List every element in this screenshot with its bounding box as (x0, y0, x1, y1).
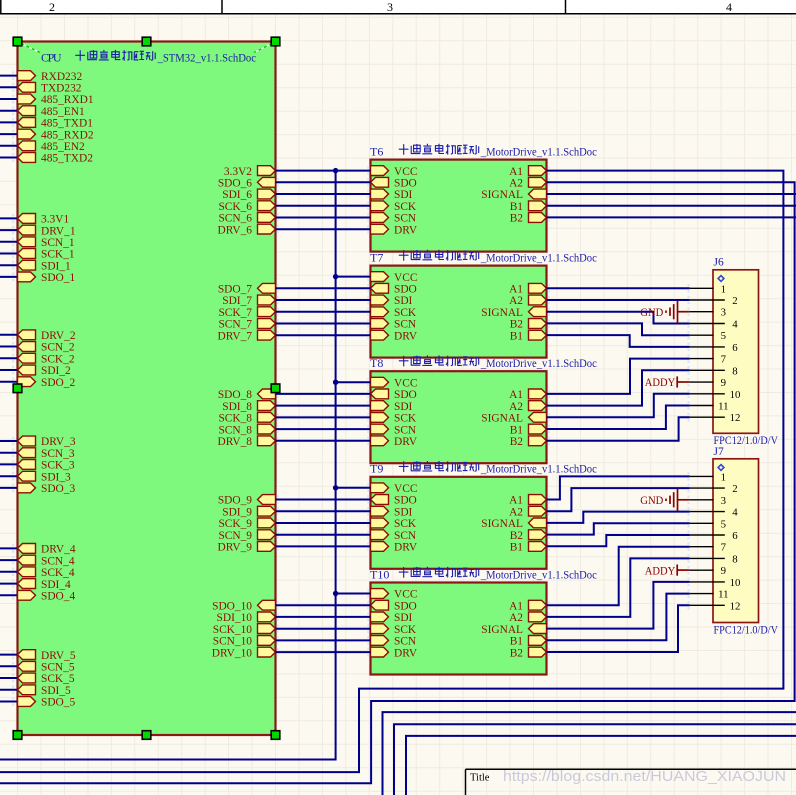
svg-text:SCK: SCK (394, 201, 417, 213)
wire (547, 406, 690, 430)
pin 1 (690, 471, 726, 483)
node marker (367, 648, 369, 656)
sheet entry DRV_1 (18, 225, 76, 237)
svg-text:SDI_9: SDI_9 (222, 506, 252, 518)
selection handle (13, 384, 22, 393)
node marker (12, 662, 14, 670)
node marker (367, 601, 369, 609)
svg-text:B2: B2 (510, 213, 524, 225)
wire (0, 276, 18, 278)
node marker (367, 331, 369, 339)
wire (0, 654, 18, 656)
svg-text:T10: T10 (370, 567, 389, 581)
svg-text:SCK: SCK (394, 518, 417, 530)
node marker (12, 686, 14, 694)
sheet entry VCC (371, 377, 418, 389)
sheet entry SIGNAL (481, 518, 546, 530)
svg-text:SDO_4: SDO_4 (41, 591, 75, 603)
sheet entry VCC (371, 166, 418, 178)
node marker (687, 401, 689, 409)
junction (333, 591, 338, 596)
svg-text:B1: B1 (510, 542, 524, 554)
node marker (367, 542, 369, 550)
sheet entry SCK (371, 624, 417, 636)
selection handle (271, 731, 280, 740)
sheet entry SCN_7 (218, 319, 275, 331)
svg-text:B1: B1 (510, 424, 524, 436)
node marker (12, 697, 14, 705)
svg-text:_MotorDrive_v1.1.SchDoc: _MotorDrive_v1.1.SchDoc (480, 252, 597, 264)
svg-text:SDO_7: SDO_7 (218, 284, 252, 296)
node marker (277, 542, 279, 550)
node marker (367, 202, 369, 210)
node marker (367, 178, 369, 186)
sheet entry SDI_5 (18, 685, 72, 697)
node marker (12, 118, 14, 126)
power port GND at J7.3 (640, 489, 690, 512)
node marker (548, 542, 550, 550)
svg-text:7: 7 (721, 354, 727, 366)
node marker (687, 472, 689, 480)
wire (0, 559, 18, 561)
svg-text:SCN_1: SCN_1 (41, 237, 75, 249)
sheet entry SCK_9 (218, 518, 275, 530)
wire (0, 475, 18, 477)
sheet entry SCK_8 (218, 412, 275, 424)
node marker (12, 650, 14, 658)
wire (336, 593, 371, 595)
wire (276, 205, 371, 207)
svg-text:_MotorDrive_v1.1.SchDoc: _MotorDrive_v1.1.SchDoc (480, 146, 597, 158)
wire (0, 381, 18, 383)
sheet entry RXD232 (18, 71, 83, 83)
sheet entry DRV_8 (217, 436, 275, 448)
sheet entry SDI (371, 506, 413, 518)
sheet file name CJK_STM32_v1.1.SchDoc (75, 50, 256, 65)
sheet entry B1 (510, 330, 547, 342)
svg-text:SCN_8: SCN_8 (218, 424, 252, 436)
wire (276, 334, 371, 336)
node marker (687, 484, 689, 492)
sheet file name CJK_MotorDrive_v1.1.SchDoc (399, 461, 597, 476)
node marker (367, 284, 369, 292)
sheet entry DRV (371, 436, 418, 448)
node marker (367, 425, 369, 433)
node marker (12, 249, 14, 257)
sheet entry A1 (509, 283, 546, 295)
pin 9 (690, 377, 726, 389)
svg-text:A2: A2 (509, 401, 523, 413)
sheet entry SDO_8 (218, 389, 276, 401)
wire (0, 346, 18, 348)
wire (276, 440, 371, 442)
svg-text:DRV: DRV (394, 647, 418, 659)
wire (547, 582, 690, 629)
svg-text:SDI_6: SDI_6 (222, 189, 252, 201)
wire (276, 628, 371, 630)
wire (276, 639, 371, 641)
node marker (367, 390, 369, 398)
node marker (277, 507, 279, 515)
svg-text:5: 5 (721, 330, 726, 342)
node marker (367, 308, 369, 316)
sheet symbol T7 (MotorDrive sheet) (371, 266, 547, 358)
wire (0, 334, 18, 336)
power port ADDY at J6.9 (645, 375, 690, 389)
wire (0, 86, 18, 88)
node marker (12, 568, 14, 576)
node marker (548, 319, 550, 327)
sheet entry A1 (509, 600, 546, 612)
wire (547, 605, 690, 652)
node marker (367, 625, 369, 633)
svg-text:9: 9 (721, 377, 726, 389)
sheet file name CJK_MotorDrive_v1.1.SchDoc (399, 250, 597, 265)
svg-text:VCC: VCC (394, 483, 417, 495)
wire (336, 276, 371, 278)
sheet entry SCK_4 (18, 567, 75, 579)
svg-text:485_EN1: 485_EN1 (41, 106, 85, 118)
wire (547, 370, 690, 405)
wire (276, 499, 371, 501)
svg-text:2: 2 (732, 483, 737, 495)
svg-text:SCN: SCN (394, 319, 416, 331)
svg-text:3: 3 (721, 307, 726, 319)
node marker (687, 390, 689, 398)
svg-text:B1: B1 (510, 636, 524, 648)
sheet entry SDO_2 (18, 377, 76, 389)
wire (0, 253, 18, 255)
wire (0, 357, 18, 359)
junction (333, 168, 338, 173)
wire T7.A1 to J6.1 (547, 287, 690, 289)
wire (383, 712, 796, 795)
pin 3 (690, 495, 726, 507)
node marker (367, 589, 369, 597)
sheet entry A1 (509, 495, 546, 507)
wire (336, 487, 371, 489)
sheet entry SDI_6 (222, 189, 275, 201)
sheet entry SCN_1 (18, 237, 75, 249)
wire (276, 311, 371, 313)
svg-text:ADDY: ADDY (645, 375, 676, 389)
svg-text:8: 8 (732, 553, 737, 565)
node marker (367, 225, 369, 233)
sheet entry 485_TXD2 (18, 153, 94, 165)
pin 9 (690, 565, 726, 577)
node marker (687, 601, 689, 609)
wire (276, 217, 371, 219)
wire (547, 335, 690, 347)
node marker (12, 460, 14, 468)
svg-text:SDO: SDO (394, 600, 417, 612)
svg-text:DRV: DRV (394, 330, 418, 342)
svg-text:SDI: SDI (394, 506, 413, 518)
svg-text:12: 12 (730, 600, 741, 612)
wire (276, 510, 371, 512)
svg-text:7: 7 (721, 542, 727, 554)
wire (0, 157, 18, 159)
svg-text:SCK: SCK (394, 413, 417, 425)
svg-text:A1: A1 (509, 389, 523, 401)
svg-text:DRV_9: DRV_9 (217, 542, 252, 554)
sheet entry 3.3V1 (18, 214, 70, 226)
node marker (12, 273, 14, 281)
wire (276, 170, 371, 172)
wire (394, 724, 796, 795)
svg-text:J6: J6 (714, 257, 724, 269)
sheet entry DRV_6 (217, 224, 275, 236)
wire (547, 476, 690, 499)
sheet file name CJK_MotorDrive_v1.1.SchDoc (399, 567, 597, 582)
svg-text:DRV: DRV (394, 542, 418, 554)
sheet entry DRV_4 (18, 544, 76, 556)
svg-text:485_RXD2: 485_RXD2 (41, 129, 94, 141)
pin 1 (690, 283, 726, 295)
svg-text:SIGNAL: SIGNAL (481, 189, 523, 201)
power port ADDY at J7.9 (645, 563, 690, 577)
wire (276, 228, 371, 230)
connector J7 (713, 459, 759, 623)
wire (276, 416, 371, 418)
node marker (367, 636, 369, 644)
node marker (687, 496, 689, 504)
svg-text:8: 8 (732, 365, 737, 377)
svg-text:A2: A2 (509, 612, 523, 624)
sheet entry SCK_5 (18, 673, 75, 685)
sheet entry SDI_9 (222, 506, 275, 518)
svg-text:SDO_8: SDO_8 (218, 389, 252, 401)
node marker (367, 378, 369, 386)
svg-text:SCN_7: SCN_7 (218, 319, 252, 331)
node marker (12, 95, 14, 103)
svg-text:SDI: SDI (394, 612, 413, 624)
svg-text:1: 1 (721, 283, 726, 295)
wire (0, 440, 18, 442)
svg-text:VCC: VCC (394, 166, 417, 178)
pin 10 (690, 577, 741, 589)
wire (547, 488, 690, 511)
wire (0, 677, 18, 679)
svg-text:FPC12/1.0/D/V: FPC12/1.0/D/V (714, 625, 779, 637)
wire (0, 452, 18, 454)
svg-text:3: 3 (721, 495, 726, 507)
sheet entry 485_EN1 (18, 106, 85, 118)
wire (0, 182, 795, 783)
svg-text:_MotorDrive_v1.1.SchDoc: _MotorDrive_v1.1.SchDoc (480, 358, 597, 370)
node marker (367, 484, 369, 492)
sheet entry SCN (371, 213, 417, 225)
wire T6.B2 (547, 216, 796, 218)
node marker (12, 83, 14, 91)
node marker (548, 601, 550, 609)
wire (276, 181, 371, 183)
svg-text:J7: J7 (714, 446, 724, 458)
node marker (687, 296, 689, 304)
sheet entry SCK_6 (218, 201, 275, 213)
svg-text:SDO_2: SDO_2 (41, 377, 75, 389)
svg-text:VCC: VCC (394, 272, 417, 284)
sheet entry A2 (509, 612, 546, 624)
svg-text:T6: T6 (370, 144, 383, 158)
svg-text:GND: GND (640, 493, 663, 507)
selection handle (13, 37, 22, 46)
pin 6 (690, 342, 738, 354)
sheet entry SDI_2 (18, 365, 72, 377)
svg-text:SDO: SDO (394, 389, 417, 401)
sheet entry 485_RXD2 (18, 129, 94, 141)
pin 2 (690, 483, 738, 495)
sheet entry SIGNAL (481, 307, 546, 319)
pin 2 (690, 295, 738, 307)
wire (547, 323, 690, 335)
pin 4 (690, 507, 738, 519)
sheet file name CJK_MotorDrive_v1.1.SchDoc (399, 144, 597, 159)
svg-text:B2: B2 (510, 530, 524, 542)
wire (276, 534, 371, 536)
sheet entry TXD232 (18, 82, 82, 94)
svg-text:SCN_3: SCN_3 (41, 448, 75, 460)
node marker (367, 166, 369, 174)
svg-text:SDO_9: SDO_9 (218, 495, 252, 507)
wire (276, 405, 371, 407)
sheet entry DRV (371, 647, 418, 659)
svg-text:SCK: SCK (394, 307, 417, 319)
node marker (277, 437, 279, 445)
svg-text:SDI_5: SDI_5 (41, 685, 71, 697)
wire (0, 133, 18, 135)
svg-text:SCN_9: SCN_9 (218, 530, 252, 542)
wire (276, 287, 371, 289)
svg-text:10: 10 (730, 389, 741, 401)
wire (276, 428, 371, 430)
pin 8 (690, 553, 738, 565)
svg-text:SDO_1: SDO_1 (41, 272, 75, 284)
sheet entry SDI (371, 189, 413, 201)
wire (547, 535, 690, 546)
sheet entry SDO_6 (218, 177, 276, 189)
wire (547, 594, 690, 641)
node marker (12, 366, 14, 374)
sheet file name CJK_MotorDrive_v1.1.SchDoc (399, 355, 597, 370)
node marker (12, 153, 14, 161)
sheet entry B2 (510, 530, 547, 542)
node marker (548, 495, 550, 503)
node marker (12, 591, 14, 599)
wire (276, 604, 371, 606)
svg-text:T8: T8 (370, 356, 383, 370)
wire (276, 651, 371, 653)
svg-text:_MotorDrive_v1.1.SchDoc: _MotorDrive_v1.1.SchDoc (480, 464, 597, 476)
node marker (687, 319, 689, 327)
sheet entry SDO (371, 283, 417, 295)
node marker (367, 495, 369, 503)
svg-text:GND: GND (640, 305, 663, 319)
title block (466, 769, 796, 795)
node marker (12, 449, 14, 457)
svg-text:11: 11 (718, 401, 728, 413)
node marker (687, 554, 689, 562)
node marker (367, 401, 369, 409)
node marker (548, 425, 550, 433)
svg-text:SDO_5: SDO_5 (41, 697, 75, 709)
node marker (548, 390, 550, 398)
wire (0, 571, 18, 573)
wire (276, 323, 371, 325)
svg-text:SDI_3: SDI_3 (41, 471, 71, 483)
svg-text:SCN_10: SCN_10 (213, 636, 253, 648)
svg-text:SCN: SCN (394, 636, 416, 648)
node marker (277, 178, 279, 186)
wire (0, 229, 18, 231)
sheet entry VCC (371, 272, 418, 284)
svg-text:SCK_8: SCK_8 (218, 413, 252, 425)
wire (0, 241, 18, 243)
node marker (12, 107, 14, 115)
sheet entry DRV_5 (18, 650, 76, 662)
wire (547, 558, 690, 617)
svg-text:SDI: SDI (394, 295, 413, 307)
svg-text:SCN_4: SCN_4 (41, 555, 75, 567)
sheet entry DRV (371, 224, 418, 236)
svg-text:SDO: SDO (394, 495, 417, 507)
power port GND at J6.3 (640, 300, 690, 323)
svg-text:SCK_3: SCK_3 (41, 460, 75, 472)
pin 4 (690, 319, 738, 331)
sheet entry SDO_4 (18, 590, 76, 602)
svg-text:SIGNAL: SIGNAL (481, 307, 523, 319)
junction (333, 485, 338, 490)
selection handle (271, 384, 280, 393)
sheet entry A2 (509, 506, 546, 518)
svg-text:SIGNAL: SIGNAL (481, 413, 523, 425)
selection handle (142, 731, 151, 740)
wire (276, 522, 371, 524)
sheet entry SDO_3 (18, 483, 76, 495)
node marker (548, 296, 550, 304)
sheet symbol CPU (STM32 sheet) (18, 42, 276, 736)
svg-text:5: 5 (721, 518, 726, 530)
svg-text:https://blog.csdn.net/HUANG_XI: https://blog.csdn.net/HUANG_XIAOJUN (503, 769, 786, 785)
wire (0, 369, 18, 371)
sheet symbol T6 (MotorDrive sheet) (371, 160, 547, 252)
svg-text:SDI_7: SDI_7 (222, 295, 252, 307)
svg-text:B2: B2 (510, 436, 524, 448)
svg-text:A2: A2 (509, 295, 523, 307)
selection dash top-right (254, 44, 272, 53)
pin 6 (690, 530, 738, 542)
sheet symbol T8 (MotorDrive sheet) (371, 371, 547, 463)
node marker (548, 178, 550, 186)
node marker (548, 507, 550, 515)
node marker (367, 437, 369, 445)
node marker (548, 308, 550, 316)
node marker (687, 366, 689, 374)
sheet entry SDO (371, 389, 417, 401)
svg-text:DRV_2: DRV_2 (41, 330, 76, 342)
sheet entry SDO (371, 177, 417, 189)
wire (0, 98, 18, 100)
svg-text:485_TXD2: 485_TXD2 (41, 153, 93, 165)
svg-text:B1: B1 (510, 201, 524, 213)
sheet entry DRV_2 (18, 330, 76, 342)
sheet entry B2 (510, 319, 547, 331)
node marker (277, 425, 279, 433)
sheet entry SDI (371, 295, 413, 307)
svg-text:485_EN2: 485_EN2 (41, 141, 85, 153)
sheet entry SDI (371, 401, 413, 413)
wire (276, 616, 371, 618)
